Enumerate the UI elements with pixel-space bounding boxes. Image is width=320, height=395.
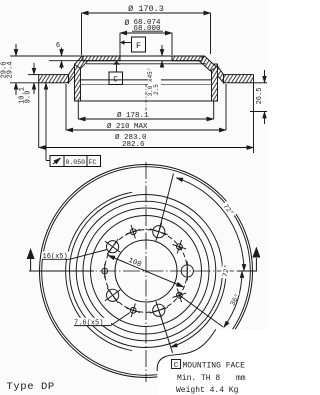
dim 29.6/29.4 [1, 44, 50, 95]
chamfer note 3.0/2.5 x45 [147, 45, 162, 96]
small hole S4 (252deg) [126, 304, 140, 318]
svg-text:mm: mm [236, 374, 246, 383]
bolt hole B2 (72deg) [150, 223, 168, 241]
hat flange right [172, 56, 202, 61]
dim 10.1/9.9 [19, 63, 39, 104]
cutting plane solid ends [29, 270, 94, 272]
svg-text:Ø: Ø [125, 19, 130, 28]
svg-text:2.5: 2.5 [153, 84, 160, 95]
cutting arrow left [27, 248, 35, 271]
arc dim 72 upper [176, 178, 244, 271]
hat circle 4 [91, 216, 202, 327]
note block mask [157, 329, 267, 395]
hat slope left [75, 56, 89, 69]
horizontal centerline / cutting plane [29, 270, 257, 272]
small hole S5 (324deg) [173, 289, 187, 303]
drum rim line [75, 100, 218, 102]
hat flange left [83, 56, 120, 61]
bolt hole B4 (216deg) [105, 288, 120, 303]
hat circle 1 [70, 195, 223, 348]
hat slope right [199, 56, 217, 71]
svg-text:C: C [174, 362, 179, 370]
outer chamfer circle [42, 167, 251, 376]
svg-text:F: F [136, 41, 141, 51]
cutting arrow right [252, 247, 260, 272]
drum wall left [75, 64, 81, 101]
hat circle 3 [83, 208, 209, 334]
dim 108 bolt circle [108, 255, 184, 287]
friction ring right [224, 75, 254, 83]
cone right [211, 65, 224, 83]
vertical centerline [145, 162, 147, 382]
svg-text:29.4: 29.4 [7, 62, 15, 79]
dim 210 MAX [66, 84, 226, 131]
SECTION VIEW [1, 4, 268, 167]
friction ring left [39, 75, 69, 83]
label 7.6(x5) [74, 313, 131, 328]
outer circle [40, 165, 253, 378]
svg-text:7.6(x5): 7.6(x5) [74, 319, 103, 327]
dim 68.074/68.000 [120, 19, 172, 56]
dim 26.5 [250, 70, 267, 124]
flange bottom line [82, 60, 199, 62]
FRONT VIEW [7, 162, 268, 395]
datum C [109, 61, 123, 85]
radial 72deg [159, 174, 174, 232]
svg-text:FC: FC [89, 159, 97, 166]
svg-text:Weight 4.4 Kg: Weight 4.4 Kg [176, 386, 239, 395]
svg-text:9.9: 9.9 [25, 91, 33, 104]
drum wall right [212, 64, 218, 101]
svg-text:26.5: 26.5 [256, 88, 264, 105]
dim 170.3 [82, 4, 211, 55]
drum interior line 2 [81, 84, 212, 86]
svg-text:0.050: 0.050 [66, 159, 86, 166]
hat arc partial [66, 192, 132, 350]
center bore [115, 240, 177, 302]
runout feature control frame [46, 83, 101, 167]
radial -36deg [179, 295, 222, 327]
bolt circle (dashed) [105, 230, 188, 313]
svg-text:MOUNTING FACE: MOUNTING FACE [183, 361, 246, 370]
svg-text:C: C [113, 76, 118, 85]
label 16(x5) [42, 250, 107, 262]
dim 6 [49, 42, 82, 69]
cone left [69, 65, 82, 83]
svg-text:16(x5): 16(x5) [43, 253, 68, 261]
small hole S3 (180deg) [102, 264, 108, 278]
datum F frame [120, 37, 146, 52]
flange top line [82, 55, 205, 57]
axis centerline [145, 84, 147, 111]
svg-text:Min. TH 8: Min. TH 8 [177, 374, 220, 383]
small hole S1 (36deg) [173, 240, 187, 254]
note block: mounting face [172, 360, 246, 395]
hat circle 2 [76, 201, 216, 341]
svg-text:Type DP: Type DP [7, 381, 55, 393]
dim 283.0/282.6 [39, 83, 254, 153]
arc dim 36 [224, 271, 243, 327]
small hole S2 (108deg) [126, 225, 140, 239]
leader curve to mounting face note [157, 329, 216, 371]
dim 178.1 [78, 101, 213, 120]
svg-text:6: 6 [56, 42, 60, 50]
drum interior line 1 [81, 79, 212, 81]
mounting face inner line [86, 63, 206, 65]
bolt hole B3 (144deg) [105, 239, 120, 254]
bolt hole B1 (0deg) [181, 262, 193, 281]
radial -72deg [159, 310, 173, 353]
bolt hole B5 (288deg) [150, 301, 168, 319]
arc dim 72 lower [171, 262, 233, 347]
